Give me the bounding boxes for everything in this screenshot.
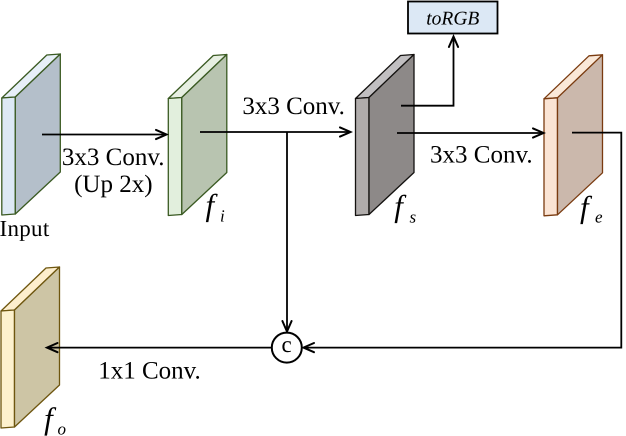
svg-text:c: c	[281, 332, 291, 357]
slab f_i (green)	[168, 55, 227, 216]
wire: f_i to f_s arrow	[200, 131, 350, 133]
toRGB box	[408, 2, 498, 34]
wire: concat circle to f_o arrow (1x1 conv)	[48, 347, 272, 349]
wire: f_e down and left into concat circle	[305, 133, 622, 348]
wire: f_s up to toRGB	[401, 38, 454, 106]
svg-text:3x3 Conv.: 3x3 Conv.	[62, 144, 165, 171]
wire: Input to f_i arrow	[42, 134, 166, 136]
svg-text:1x1 Conv.: 1x1 Conv.	[98, 358, 201, 385]
input feature-map slab (blue-gray)	[2, 54, 61, 215]
wire: branch down from f_i line to concat circle	[286, 132, 288, 330]
concat node C (circle)	[272, 333, 302, 363]
svg-text:toRGB: toRGB	[426, 9, 479, 30]
svg-text:Input: Input	[0, 216, 50, 241]
svg-text:i: i	[220, 206, 225, 225]
svg-text:e: e	[595, 207, 603, 226]
wire: f_s to f_e arrow	[397, 132, 543, 134]
svg-text:s: s	[410, 207, 417, 226]
svg-text:o: o	[58, 420, 67, 436]
slab f_s (dark gray)	[356, 55, 415, 216]
slab f_o (yellow)	[1, 267, 60, 428]
slab f_e (orange)	[544, 55, 603, 216]
svg-text:3x3 Conv.: 3x3 Conv.	[430, 142, 533, 169]
svg-text:(Up 2x): (Up 2x)	[74, 171, 152, 198]
svg-text:3x3 Conv.: 3x3 Conv.	[242, 93, 345, 120]
